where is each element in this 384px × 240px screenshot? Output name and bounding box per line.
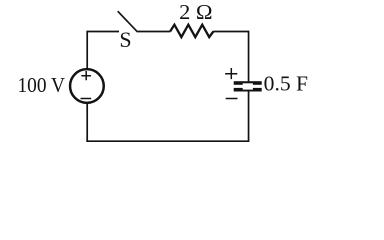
voltage source minus sign (81, 98, 92, 100)
svg-text:0.5 F: 0.5 F (264, 72, 308, 96)
svg-text:100 V: 100 V (18, 73, 66, 97)
voltage source plus sign (81, 71, 91, 80)
voltage source V1 circle (70, 69, 104, 103)
switch S blade (118, 11, 137, 31)
wire top-left segment (87, 31, 119, 33)
capacitor white gap notch (243, 83, 253, 89)
capacitor minus polarity sign (226, 98, 238, 100)
resistor R 2ohm zigzag (170, 25, 213, 37)
svg-text:2 Ω: 2 Ω (179, 0, 213, 24)
wire resistor-to-top-right segment (213, 31, 248, 33)
wire right vertical upper (248, 31, 250, 82)
wire left vertical lower (86, 103, 88, 141)
svg-text:S: S (119, 27, 131, 52)
capacitor plus polarity sign (225, 68, 237, 79)
wire right vertical lower (248, 91, 250, 141)
wire switch-to-resistor segment (137, 31, 171, 33)
wire bottom (86, 140, 249, 142)
capacitor C bottom plate (234, 88, 262, 92)
capacitor C top plate (234, 81, 262, 85)
wire left vertical upper (86, 31, 88, 69)
